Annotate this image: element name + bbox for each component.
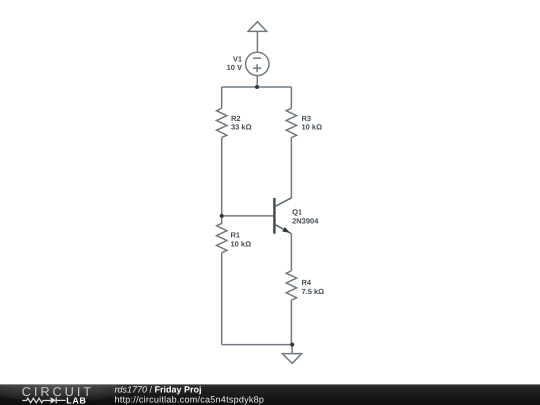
svg-text:10 kΩ: 10 kΩ — [302, 123, 323, 132]
svg-text:10 V: 10 V — [227, 63, 242, 72]
svg-text:R3: R3 — [302, 114, 312, 123]
svg-text:LAB: LAB — [66, 395, 86, 405]
svg-text:R1: R1 — [231, 231, 241, 240]
svg-text:2N3904: 2N3904 — [292, 216, 319, 225]
svg-text:10 kΩ: 10 kΩ — [231, 240, 252, 249]
svg-text:R2: R2 — [231, 114, 241, 123]
svg-text:http://circuitlab.com/ca5n4tsp: http://circuitlab.com/ca5n4tspdyk8p — [115, 395, 265, 405]
svg-text:R4: R4 — [302, 278, 312, 287]
svg-text:rds1770 / Friday Proj: rds1770 / Friday Proj — [115, 385, 202, 395]
svg-text:7.5 kΩ: 7.5 kΩ — [302, 287, 325, 296]
svg-text:Q1: Q1 — [292, 207, 302, 216]
svg-text:33 kΩ: 33 kΩ — [231, 123, 252, 132]
